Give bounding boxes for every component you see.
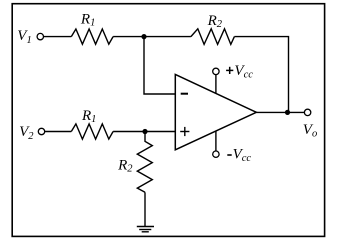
node B junction dot (non-inverting input net) (142, 129, 147, 134)
wire node A to inverting input (144, 37, 175, 94)
-Vcc supply terminal (213, 131, 252, 164)
wire R1 to non-inverting input (113, 131, 175, 133)
node Vo terminal (303, 109, 317, 139)
wire V2 to R1 (45, 131, 72, 133)
resistor R1 (top) (71, 11, 113, 44)
wire R2 to ground (144, 192, 146, 226)
wire V1 to R1 (44, 36, 72, 38)
resistor R2 (top feedback) (191, 13, 235, 45)
op-amp U1 (175, 74, 256, 149)
resistor R2 (vertical to ground) (117, 132, 152, 193)
node A junction dot (inverting input net) (141, 34, 146, 39)
node V2 terminal (19, 124, 45, 142)
node V1 terminal (17, 28, 43, 46)
resistor R1 (bottom) (71, 108, 113, 139)
wire R2 to output node (234, 37, 288, 113)
+Vcc supply terminal (213, 63, 254, 93)
wire R1 to R2 (top) (113, 36, 191, 38)
node output junction dot (285, 110, 290, 115)
wire op-amp output (256, 111, 304, 113)
ground (137, 227, 154, 232)
